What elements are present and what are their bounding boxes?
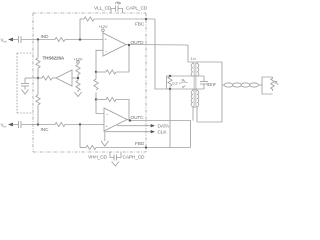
wire	[116, 100, 129, 121]
resistor bias lower	[36, 95, 40, 105]
node OUTC	[129, 119, 131, 121]
wire FBC feedback riser	[79, 19, 81, 40]
node	[95, 98, 97, 100]
twisted pair line	[222, 84, 225, 86]
wire	[77, 75, 79, 81]
svg-text:−: −	[105, 48, 108, 53]
transformer T1 secondary	[197, 62, 199, 76]
resistor Rf D	[96, 71, 106, 73]
wire IND	[22, 39, 56, 41]
marker top	[115, 2, 121, 4]
op-amp D	[103, 33, 126, 56]
resistor series C	[55, 122, 65, 126]
svg-text:1:n: 1:n	[191, 56, 196, 61]
IC boundary THS6226A (dash-dot box)	[33, 13, 146, 152]
svg-text:FBD: FBD	[135, 141, 145, 147]
svg-text:RL: RL	[182, 77, 187, 83]
svg-text:33nF: 33nF	[207, 82, 217, 87]
wire FBC	[94, 18, 155, 20]
svg-text:DATA: DATA	[158, 124, 170, 130]
wire FBD feedback riser	[79, 125, 81, 148]
wire FBD riser	[169, 89, 171, 148]
transformer core	[193, 63, 195, 108]
node OUTD	[128, 44, 130, 46]
wire	[188, 45, 222, 62]
capacitor C input bottom	[18, 121, 20, 128]
input terminal VIN+ arrow	[8, 38, 13, 42]
transformer T1 primary	[191, 62, 193, 76]
charge pump capacitor bottom CAPH	[110, 152, 114, 158]
wire -IN C	[96, 100, 104, 114]
svg-text:FBC: FBC	[135, 21, 145, 27]
wire line side	[221, 62, 223, 122]
resistor bias upper	[36, 58, 40, 68]
svg-text:Vin+: Vin+	[1, 37, 8, 43]
svg-text:n²: n²	[182, 84, 186, 89]
pin dot FBC	[145, 18, 147, 20]
wire	[37, 105, 39, 125]
wire OUTD	[126, 44, 188, 47]
node	[169, 75, 171, 77]
resistor RL	[271, 77, 275, 91]
resistor feedback C	[84, 17, 94, 21]
load RL box	[259, 84, 262, 86]
svg-text:IND: IND	[41, 34, 49, 40]
wire	[13, 39, 19, 41]
resistor divider lower	[76, 81, 80, 91]
ground divider	[75, 92, 82, 97]
svg-text:+: +	[106, 124, 109, 129]
svg-text:CAPL_CD: CAPL_CD	[126, 5, 148, 11]
svg-text:CLK: CLK	[158, 130, 168, 136]
ground op-amp C	[104, 131, 106, 141]
wire	[77, 91, 79, 93]
svg-text:RL: RL	[275, 80, 280, 86]
resistor gain Rg	[94, 79, 98, 90]
wire	[65, 124, 104, 126]
wire -IN D	[96, 50, 103, 72]
pin dot FBD	[145, 146, 147, 148]
svg-text:−: −	[106, 111, 109, 116]
node bias	[37, 77, 39, 79]
capacitor bias	[21, 83, 29, 85]
svg-text:+12V: +12V	[99, 24, 108, 29]
op-amp C	[104, 108, 127, 131]
node +IN C	[79, 123, 81, 125]
resistor feedback D	[86, 145, 96, 149]
wire	[37, 68, 39, 95]
wire	[72, 77, 78, 79]
input terminal VIN- arrow	[8, 123, 13, 127]
resistor buffer output	[38, 77, 42, 79]
node INC	[37, 123, 39, 125]
supply +12V op-amp D	[102, 29, 105, 32]
supply +12V divider	[77, 61, 80, 64]
svg-text:VLL_CD: VLL_CD	[94, 5, 112, 11]
wire	[190, 121, 192, 148]
capacitor C input top	[18, 36, 20, 43]
node divider	[77, 77, 79, 79]
resistor series D	[55, 37, 65, 41]
wire termination top	[167, 76, 205, 89]
resistor Rf C	[96, 99, 106, 101]
wire FBD	[96, 147, 191, 149]
external bias dashed box	[17, 53, 33, 113]
buffer U mid-supply (triangle pointing left)	[56, 70, 72, 86]
svg-text:+: +	[105, 36, 108, 41]
svg-text:0.2 ×: 0.2 ×	[173, 80, 182, 85]
wire	[24, 87, 26, 90]
signal DATA	[117, 125, 151, 127]
wire	[80, 147, 86, 149]
svg-text:+12V: +12V	[74, 56, 83, 61]
node	[95, 71, 97, 73]
svg-text:OUTC: OUTC	[131, 115, 145, 121]
svg-text:VHH_CD: VHH_CD	[88, 154, 108, 160]
wire	[80, 18, 84, 20]
ground bias cap	[22, 90, 29, 95]
wire secondary bottom	[197, 121, 222, 123]
resistor divider upper	[76, 65, 80, 75]
wire bias cap	[25, 77, 38, 79]
charge pump capacitor top CAPL	[111, 9, 116, 14]
svg-text:OUTD: OUTD	[131, 40, 145, 46]
wire	[65, 39, 103, 41]
wire	[116, 45, 129, 72]
wire FBC riser	[155, 19, 204, 89]
wire	[13, 124, 19, 126]
node IND	[37, 38, 39, 40]
resistor termination 0.2xRL/n2	[168, 77, 172, 87]
bias chain wire	[37, 40, 39, 59]
svg-text:CAPH_CD: CAPH_CD	[123, 154, 146, 160]
node +IN D	[79, 38, 81, 40]
wire OUTC	[127, 120, 130, 121]
ground marker bottom	[112, 162, 119, 167]
signal CLK	[106, 131, 152, 133]
svg-text:THS6226A: THS6226A	[43, 56, 65, 61]
svg-text:INC: INC	[41, 127, 49, 133]
wire INC	[22, 124, 56, 126]
svg-text:Vin−: Vin−	[1, 122, 8, 128]
capacitor termination 33nF	[203, 76, 205, 81]
